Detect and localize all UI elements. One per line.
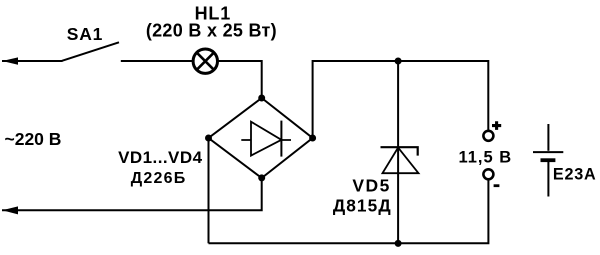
svg-text:~220 В: ~220 В — [5, 129, 62, 149]
svg-text:VD5: VD5 — [352, 176, 391, 196]
svg-text:VD1...VD4: VD1...VD4 — [118, 148, 202, 167]
svg-text:Д815Д: Д815Д — [333, 196, 392, 216]
svg-text:Д226Б: Д226Б — [131, 170, 187, 187]
svg-text:(220 В x 25 Вт): (220 В x 25 Вт) — [146, 21, 277, 41]
svg-text:E23A: E23A — [553, 165, 597, 183]
svg-text:11,5 В: 11,5 В — [458, 149, 512, 167]
svg-text:SA1: SA1 — [67, 24, 103, 44]
